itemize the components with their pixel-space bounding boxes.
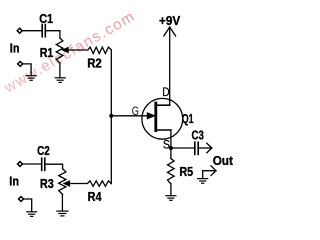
svg-text:R4: R4 (88, 189, 103, 204)
wire S to C3 (171, 147, 194, 149)
ground (out return) (198, 179, 208, 184)
capacitor C1 (42, 25, 45, 37)
ground (In- top) (26, 76, 36, 81)
svg-text:G: G (132, 104, 139, 118)
svg-text:Q1: Q1 (182, 111, 194, 126)
svg-text:Out: Out (213, 153, 234, 168)
ground (below R1) (55, 78, 65, 83)
wire In- to ground (24, 64, 31, 75)
svg-text:+9V: +9V (159, 13, 181, 28)
node In- terminal (bottom) (19, 197, 24, 202)
ground (below R5) (166, 196, 176, 201)
capacitor C2 (42, 158, 45, 170)
wire bus to gate (111, 115, 147, 117)
svg-text:R5: R5 (179, 164, 193, 179)
resistor R2 (68, 47, 111, 53)
Q1 channel bar (154, 103, 157, 131)
wire C3 to out arrow (199, 147, 212, 149)
resistor R4 (69, 181, 111, 187)
wire R1 to ground (59, 63, 61, 77)
svg-text:C2: C2 (37, 143, 50, 158)
wire R2 to gate bus (110, 50, 112, 116)
wire C2 to R3 top (46, 164, 63, 169)
Q1 source lead (157, 129, 171, 131)
svg-text:D: D (162, 85, 170, 99)
wire R5 to ground (170, 184, 172, 196)
junction dot (source node S) (169, 146, 173, 150)
capacitor C3 (195, 142, 198, 154)
resistor R5 (168, 159, 175, 184)
R1 wiper arrow (62, 47, 68, 53)
node In- terminal (top) (18, 61, 23, 66)
node In+ terminal (bottom) (18, 162, 23, 167)
svg-text:R2: R2 (87, 56, 102, 71)
svg-text:In: In (9, 174, 19, 189)
svg-text:C3: C3 (192, 128, 204, 143)
power +9V arrow (169, 27, 171, 105)
Q1 drain lead (157, 104, 170, 106)
svg-text:C1: C1 (39, 11, 53, 26)
resistor R1 (pot) (56, 38, 63, 63)
svg-text:R3: R3 (40, 176, 54, 191)
wire source down (170, 130, 172, 159)
wire In+ to C1 (23, 30, 41, 32)
wire R3 to ground (61, 195, 63, 211)
wire R4 to bus (110, 116, 112, 184)
out arrow head (207, 143, 212, 153)
svg-text:In: In (10, 41, 20, 56)
node In+ terminal (top) (17, 28, 22, 33)
wire In+ to C2 (24, 163, 41, 165)
svg-text:R1: R1 (40, 45, 54, 60)
out return arrow (203, 171, 216, 179)
gate arrowhead (147, 113, 155, 119)
ground (below R3) (57, 211, 68, 216)
svg-text:S: S (163, 137, 170, 151)
wire C1 to R1 top (46, 31, 60, 38)
resistor R3 (pot) (59, 169, 66, 195)
ground (In- bottom) (27, 212, 37, 217)
transistor Q1 circle (142, 98, 183, 139)
wire In- to ground (25, 199, 32, 211)
junction dot (gate bus) (109, 114, 113, 118)
R3 wiper arrow (64, 181, 70, 187)
